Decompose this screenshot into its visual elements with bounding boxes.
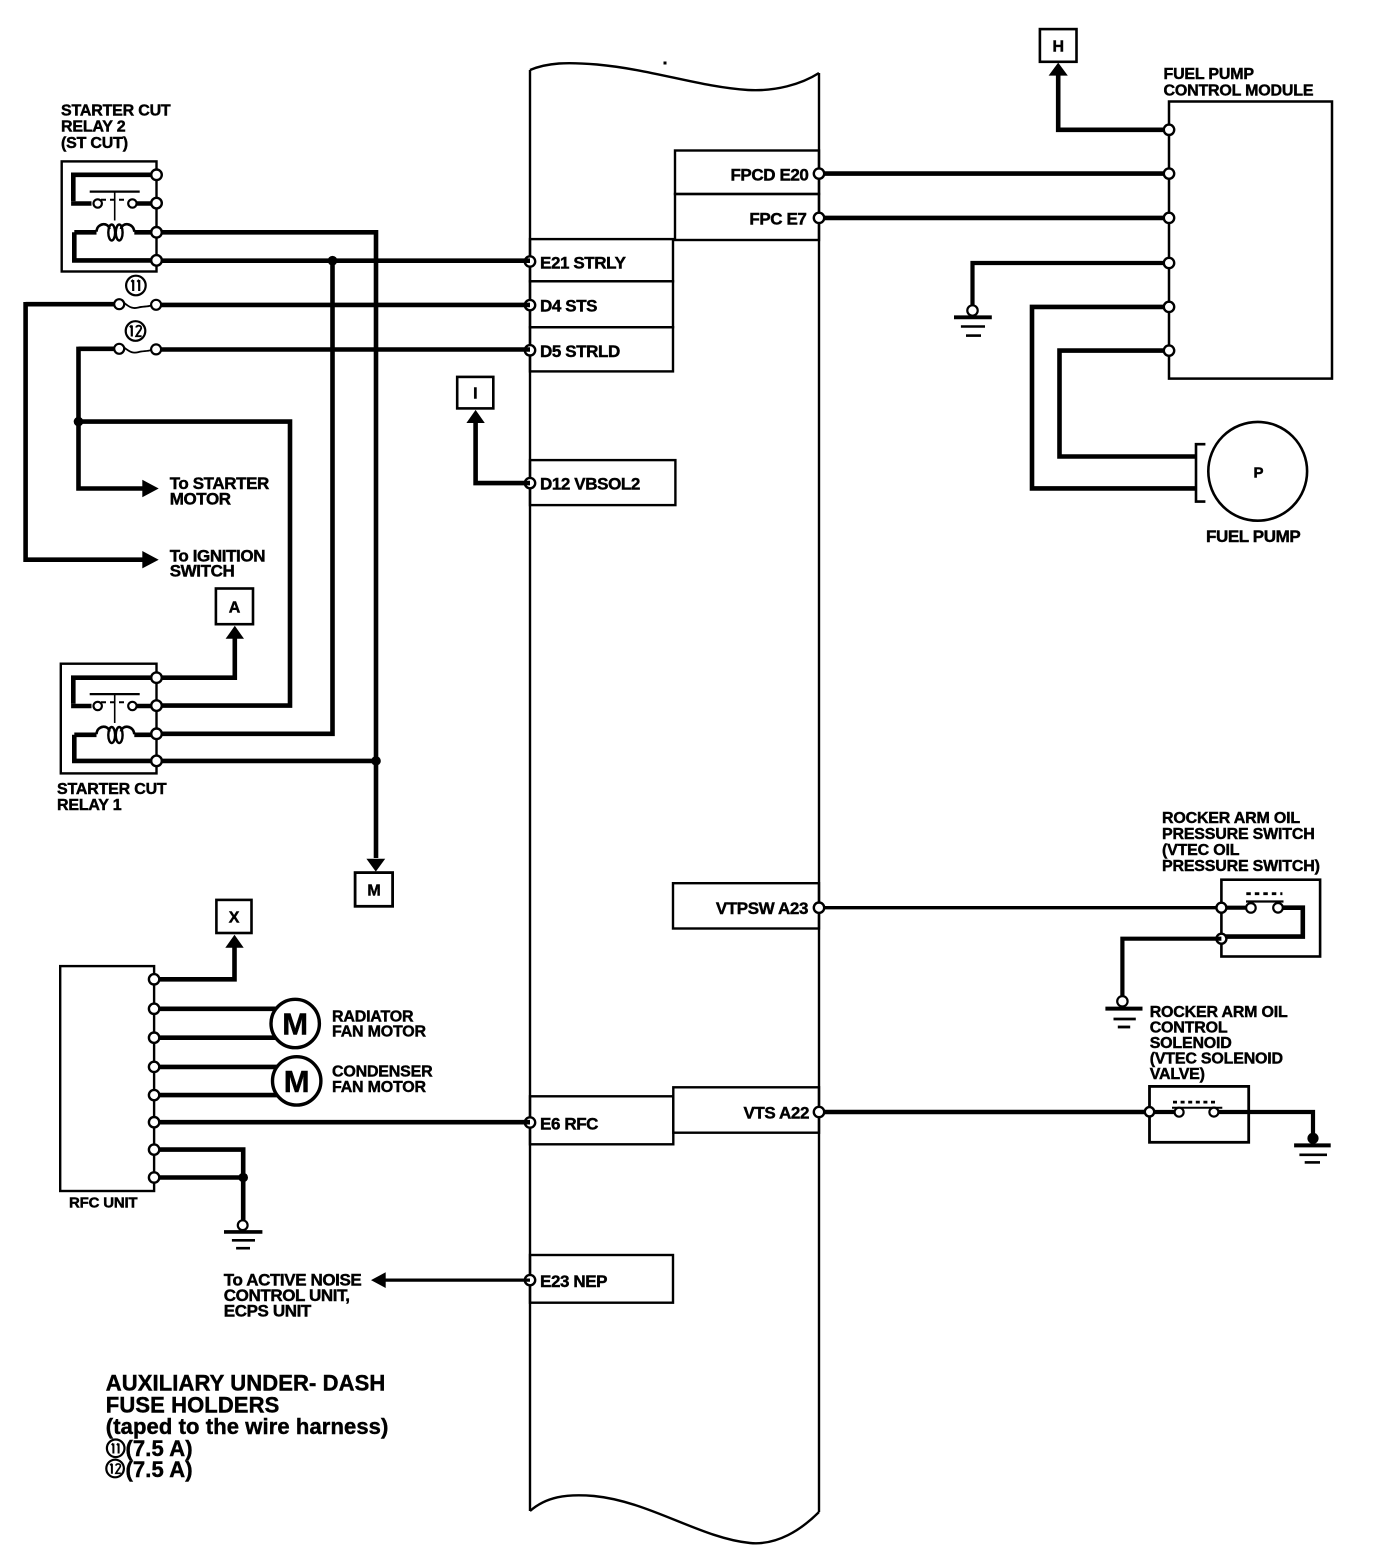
label ROCKER ARM OIL PRESSURE SWITCH — [1162, 810, 1320, 875]
svg-text:VALVE): VALVE) — [1150, 1066, 1205, 1083]
label RADIATOR FAN MOTOR — [332, 1008, 427, 1040]
connector I box — [457, 377, 493, 409]
svg-text:SOLENOID: SOLENOID — [1150, 1035, 1232, 1052]
label CONDENSER FAN MOTOR — [332, 1064, 433, 1096]
svg-text:E6 RFC: E6 RFC — [540, 1115, 598, 1134]
arrowhead into I — [466, 410, 484, 423]
rocker arm oil pressure switch S1 — [1216, 880, 1320, 957]
wire junction down to relay K1 pin3 — [161, 261, 333, 734]
wire module pin1 to H — [1058, 74, 1169, 130]
relay K1 label STARTER CUT RELAY 1 — [57, 781, 167, 814]
wire D12 VBSOL2 to I — [476, 421, 530, 483]
svg-text:STARTER CUT: STARTER CUT — [61, 102, 171, 119]
arrowhead into M — [366, 859, 385, 872]
wire battery feed through fuse 11 to D4 STS — [26, 302, 530, 307]
wire relay K2 pin3 to M connector — [161, 232, 376, 858]
wire solenoid to ground — [1249, 1112, 1313, 1136]
svg-text:SWITCH: SWITCH — [170, 562, 235, 581]
connector E21 STRLY — [525, 239, 673, 281]
wire harness band — [530, 62, 819, 1544]
connector M box — [355, 873, 393, 907]
wire through fuse 12 to D5 STRLD — [79, 346, 531, 351]
svg-text:CONTROL: CONTROL — [1150, 1020, 1228, 1037]
svg-text:FAN MOTOR: FAN MOTOR — [332, 1079, 427, 1096]
wire RFC pin7 down — [154, 1150, 243, 1178]
svg-text:M: M — [367, 883, 380, 900]
arrowhead to starter motor — [142, 480, 158, 497]
connector D12 VBSOL2 — [525, 460, 676, 505]
label To STARTER MOTOR — [170, 474, 269, 508]
svg-text:D12 VBSOL2: D12 VBSOL2 — [540, 475, 640, 494]
ground pressure switch — [1105, 996, 1142, 1027]
svg-text:(7.5 A): (7.5 A) — [126, 1457, 193, 1482]
svg-text:X: X — [229, 910, 240, 927]
connector X box — [216, 900, 251, 933]
wire RFC pin2 to radiator fan — [154, 1006, 277, 1011]
arrowhead into A — [226, 626, 244, 639]
wire relay K1 pin1 to A — [161, 637, 235, 678]
svg-text:(VTEC OIL: (VTEC OIL — [1162, 842, 1240, 859]
RFC unit pins — [149, 974, 159, 1183]
svg-text:ECPS UNIT: ECPS UNIT — [224, 1302, 312, 1321]
svg-text:VTPSW A23: VTPSW A23 — [716, 899, 808, 918]
wire VTS A22 to solenoid — [824, 1110, 1150, 1115]
svg-text:RELAY 2: RELAY 2 — [61, 119, 126, 136]
svg-text:H: H — [1053, 39, 1064, 56]
wire module pin6 to fuel pump upper terminal — [1060, 351, 1198, 457]
fuel pump control module pins — [1164, 125, 1174, 356]
rocker arm oil control solenoid L1 — [1145, 1086, 1249, 1142]
svg-text:(ST CUT): (ST CUT) — [61, 135, 128, 152]
connector A box — [216, 589, 253, 625]
junction on M line — [371, 756, 381, 766]
svg-text:E21 STRLY: E21 STRLY — [540, 253, 627, 272]
connector FPC E7 — [675, 194, 824, 240]
label FUEL PUMP CONTROL MODULE — [1164, 66, 1314, 100]
wire FPC E7 to module pin3 — [824, 216, 1169, 221]
junction fuse 12 branch — [74, 417, 84, 427]
svg-text:FAN MOTOR: FAN MOTOR — [332, 1024, 427, 1041]
fuse 11 symbol — [114, 276, 161, 310]
wire FPCD E20 to module pin2 — [824, 171, 1169, 176]
svg-text:E23 NEP: E23 NEP — [540, 1272, 607, 1291]
svg-text:ROCKER ARM OIL: ROCKER ARM OIL — [1150, 1004, 1288, 1021]
svg-text:D5 STRLD: D5 STRLD — [540, 342, 620, 361]
wire pressure switch to ground — [1122, 939, 1221, 996]
svg-text:FUEL PUMP: FUEL PUMP — [1206, 527, 1300, 546]
svg-text:I: I — [473, 386, 477, 403]
arrowhead to active noise control unit — [371, 1272, 386, 1288]
connector D5 STRLD — [525, 327, 673, 371]
ground module — [954, 305, 992, 335]
wire VTPSW A23 to pressure switch — [824, 906, 1221, 909]
RFC unit label — [69, 1195, 137, 1212]
connector D4 STS — [525, 281, 673, 327]
RFC unit box — [60, 966, 154, 1191]
arrowhead into X — [225, 935, 243, 948]
wire to ignition switch branch — [26, 302, 145, 560]
wire junction to starter motor arrow — [79, 422, 145, 489]
svg-text:MOTOR: MOTOR — [170, 490, 231, 509]
arrowhead into H — [1049, 63, 1068, 76]
svg-text:PRESSURE SWITCH): PRESSURE SWITCH) — [1162, 858, 1320, 875]
fuel pump P — [1196, 422, 1307, 521]
motor M2 condenser fan — [273, 1057, 321, 1105]
wire RFC pin3 to radiator fan — [154, 1035, 277, 1040]
wire module pin5 to fuel pump lower terminal — [1032, 307, 1197, 489]
note fuse 11 rating — [107, 1436, 193, 1461]
ground RFC unit — [224, 1220, 262, 1248]
svg-text:ROCKER ARM OIL: ROCKER ARM OIL — [1162, 810, 1300, 827]
wire RFC pin8 to ground — [154, 1178, 243, 1221]
arrowhead to ignition switch — [142, 551, 158, 568]
connector H box — [1040, 29, 1077, 62]
wire module pin4 to ground — [973, 263, 1170, 305]
svg-text:PRESSURE SWITCH: PRESSURE SWITCH — [1162, 826, 1315, 843]
svg-text:M: M — [282, 1007, 308, 1042]
svg-text:D4 STS: D4 STS — [540, 297, 597, 316]
junction at E21 wire — [328, 256, 338, 266]
svg-text:FPC E7: FPC E7 — [749, 210, 806, 229]
svg-text:P: P — [1253, 465, 1263, 482]
wire junction to relay K1 pin2 — [79, 422, 291, 706]
junction RFC ground — [238, 1173, 248, 1183]
svg-text:STARTER CUT: STARTER CUT — [57, 781, 167, 798]
note AUXILIARY UNDER-DASH FUSE HOLDERS — [106, 1371, 389, 1439]
svg-text:(VTEC SOLENOID: (VTEC SOLENOID — [1150, 1051, 1283, 1068]
svg-text:FPCD E20: FPCD E20 — [730, 166, 808, 185]
label To ACTIVE NOISE CONTROL UNIT ECPS UNIT — [224, 1270, 362, 1320]
ground solenoid — [1294, 1133, 1331, 1163]
connector E23 NEP — [525, 1255, 673, 1303]
fuel pump control module U1 — [1169, 102, 1332, 379]
connector FPCD E20 — [675, 151, 824, 195]
label To IGNITION SWITCH — [170, 546, 266, 580]
svg-text:M: M — [284, 1064, 310, 1099]
connector E6 RFC — [525, 1096, 674, 1144]
fuse 12 symbol — [114, 321, 161, 354]
wire relay K2 pin4 to E21 STRLY — [161, 258, 530, 263]
wire RFC pin6 to E6 RFC — [154, 1120, 530, 1125]
svg-text:FUEL PUMP: FUEL PUMP — [1164, 66, 1255, 83]
wire fuse 12 branch down — [76, 347, 81, 422]
svg-text:A: A — [229, 600, 241, 617]
relay K1 STARTER CUT RELAY 1 — [61, 664, 162, 774]
wire RFC pin1 to X — [154, 946, 234, 979]
wire RFC pin5 to condenser fan — [154, 1093, 279, 1098]
svg-text:CONTROL MODULE: CONTROL MODULE — [1164, 82, 1314, 99]
wire RFC pin4 to condenser fan — [154, 1065, 278, 1070]
wire E23 NEP to active noise arrow — [384, 1278, 531, 1281]
note fuse 12 rating — [106, 1457, 192, 1482]
svg-text:RELAY 1: RELAY 1 — [57, 797, 122, 814]
connector VTS A22 — [673, 1087, 824, 1132]
motor M1 radiator fan — [271, 999, 319, 1047]
connector VTPSW A23 — [673, 883, 824, 928]
label FUEL PUMP — [1206, 527, 1300, 546]
svg-text:VTS A22: VTS A22 — [743, 1104, 809, 1123]
wire relay K1 pin4 to M line — [161, 759, 376, 764]
label ROCKER ARM OIL CONTROL SOLENOID — [1150, 1004, 1288, 1083]
relay K2 label STARTER CUT RELAY 2 (ST CUT) — [61, 102, 171, 152]
svg-text:RFC UNIT: RFC UNIT — [69, 1195, 137, 1212]
relay K2 STARTER CUT RELAY 2 — [62, 161, 162, 271]
